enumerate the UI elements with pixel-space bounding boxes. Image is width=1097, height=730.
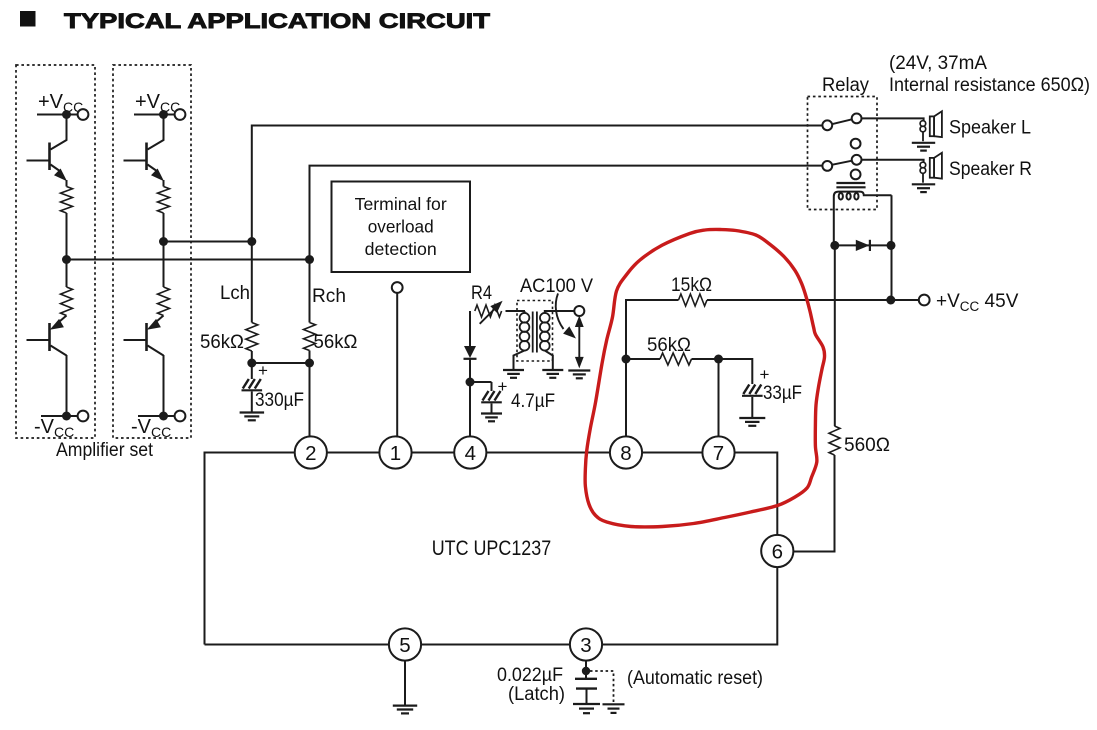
relay dashed box <box>808 97 878 210</box>
svg-text:560Ω: 560Ω <box>844 435 890 456</box>
wire -Vcc rail (amp2) <box>138 415 175 417</box>
amplifier block 2 dashed box <box>113 65 191 438</box>
transformer secondary winding <box>540 313 550 323</box>
annotation red circle <box>585 229 824 527</box>
wire amp1 output to Rch rail <box>67 259 310 261</box>
terminal AC input <box>574 306 584 316</box>
transformer T1 dashed box <box>517 301 553 362</box>
svg-text:2: 2 <box>305 442 316 465</box>
node +Vcc junction (amp2) <box>159 110 168 119</box>
wire sw2 to speaker R <box>862 160 924 163</box>
wire emitter (amp1) <box>66 180 68 187</box>
capacitor 0.022uF <box>585 671 587 679</box>
svg-text:1: 1 <box>390 442 401 465</box>
svg-text:+: + <box>760 365 770 384</box>
svg-text:(Latch): (Latch) <box>508 684 565 705</box>
relay contact sw1 NC <box>851 139 861 149</box>
ground speaker L <box>912 142 935 144</box>
terminal +Vcc (amp2) <box>175 109 186 120</box>
node diode anode <box>830 241 839 250</box>
ground below 0.022uF <box>573 703 600 705</box>
svg-text:Terminal for: Terminal for <box>355 194 447 214</box>
wire pin6 to 560 <box>793 551 834 553</box>
diode D1 <box>469 311 471 346</box>
resistor lower (amp1) <box>61 287 73 316</box>
wire pin7 rail <box>718 359 720 438</box>
wire Lch resistor to node <box>251 351 253 363</box>
node +Vcc junction (amp1) <box>62 110 71 119</box>
relay contact sw2 pole <box>822 161 832 171</box>
svg-text:Speaker L: Speaker L <box>949 118 1031 139</box>
svg-text:R4: R4 <box>471 283 492 304</box>
relay contact sw2 NC <box>851 170 861 180</box>
diode flyback <box>835 244 891 246</box>
relay contact sw1 NO <box>852 114 862 124</box>
ground AC arrow <box>568 369 590 371</box>
terminal overload detection <box>392 282 403 293</box>
svg-text:+: + <box>498 377 508 396</box>
ground below 330uF <box>240 411 265 413</box>
ground transformer primary <box>503 369 524 371</box>
relay core <box>836 182 865 184</box>
wire mid rail (amp2) <box>163 213 165 287</box>
svg-text:+: + <box>258 361 268 380</box>
svg-text:Relay: Relay <box>822 75 869 96</box>
arrow AC100V pointer <box>556 293 564 329</box>
resistor 15k <box>679 294 708 306</box>
pin 7 <box>702 436 734 468</box>
capacitor C 33uF <box>743 385 749 395</box>
resistor upper (amp2) <box>158 187 170 214</box>
resistor lower (amp2) <box>158 287 170 316</box>
pin 4 <box>454 436 486 468</box>
transistor Q upper NPN (amp2) <box>148 115 164 150</box>
pin 6 <box>761 535 793 567</box>
terminal -Vcc (amp2) <box>175 411 186 422</box>
speaker L coil <box>920 121 926 127</box>
svg-text:5: 5 <box>399 634 410 657</box>
pin 5 <box>389 628 421 660</box>
node -Vcc junction (amp2) <box>159 412 168 421</box>
wire terminal to pin1 <box>396 293 398 438</box>
svg-text:Internal resistance 650Ω): Internal resistance 650Ω) <box>889 75 1090 96</box>
svg-text:3: 3 <box>580 634 591 657</box>
wire pin3 down <box>585 661 587 671</box>
svg-text:Rch: Rch <box>312 286 346 307</box>
wire Rch to pin2 <box>309 351 311 438</box>
speaker L icon <box>930 116 934 136</box>
transistor Q lower PNP (amp1) <box>60 316 67 322</box>
node -Vcc junction (amp1) <box>62 412 71 421</box>
relay sw2 arm <box>832 161 852 165</box>
wire amp2 output to Lch rail <box>164 241 252 243</box>
svg-text:UTC UPC1237: UTC UPC1237 <box>432 537 552 560</box>
ac voltage arrow <box>578 322 580 362</box>
wire cathode to +Vcc line <box>891 245 893 300</box>
resistor 560 <box>829 426 840 455</box>
ground pin5 <box>393 704 417 706</box>
node pin3 junction <box>582 667 590 675</box>
wire pin8 rail top <box>626 300 679 359</box>
wire relay to 560 <box>834 245 836 426</box>
wire Rch to relay <box>310 166 823 323</box>
ground automatic reset <box>603 703 625 705</box>
wire pin4 rail <box>469 382 471 438</box>
wire +Vcc rail (amp2) <box>134 114 175 116</box>
wire 56k to pin7 rail <box>626 358 660 360</box>
amplifier block 1 dashed box <box>16 65 95 438</box>
transistor Q lower PNP (amp2) <box>157 316 164 322</box>
svg-text:33µF: 33µF <box>763 383 802 404</box>
svg-text:0.022µF: 0.022µF <box>497 665 563 686</box>
node Lch junction <box>247 237 256 246</box>
wire secondary to ground <box>545 351 553 370</box>
wire sw1 to speaker L <box>862 118 924 121</box>
speaker R coil <box>920 162 926 168</box>
ground transformer secondary <box>542 369 563 371</box>
svg-text:4: 4 <box>465 442 476 465</box>
wire collector to -Vcc (amp2) <box>163 355 165 416</box>
wire mid rail (amp1) <box>66 213 68 287</box>
svg-text:Lch: Lch <box>220 283 250 304</box>
ground below 33uF <box>739 417 765 419</box>
svg-text:overload: overload <box>368 217 434 237</box>
node pin7 junction <box>714 355 723 364</box>
svg-text:56kΩ: 56kΩ <box>314 332 358 353</box>
wire primary to ground <box>514 351 525 370</box>
pin 2 <box>295 436 327 468</box>
svg-text:15kΩ: 15kΩ <box>671 275 712 296</box>
wire pin8 rail <box>625 359 627 438</box>
ground below 4.7uF <box>481 412 502 414</box>
wire Lch to relay <box>252 126 823 323</box>
resistor upper (amp1) <box>61 187 73 214</box>
node Rch junction <box>305 255 314 264</box>
transistor Q upper NPN (amp1) <box>51 115 67 150</box>
relay contact sw1 pole <box>822 120 832 130</box>
node Rch bottom <box>305 359 314 368</box>
svg-text:330µF: 330µF <box>255 390 304 411</box>
node diode junction lower <box>886 296 895 305</box>
pin 1 <box>379 436 411 468</box>
svg-text:56kΩ: 56kΩ <box>200 332 244 353</box>
pin 8 <box>610 436 642 468</box>
IC UPC1237 outline <box>205 453 295 645</box>
wire -Vcc rail (amp1) <box>41 415 78 417</box>
terminal +Vcc (amp1) <box>78 109 89 120</box>
node Lch bottom <box>247 359 256 368</box>
wire +Vcc rail (amp1) <box>37 114 78 116</box>
node pin4 junction <box>466 378 475 387</box>
svg-text:(Automatic reset): (Automatic reset) <box>627 668 763 689</box>
terminal +Vcc 45V <box>919 295 930 306</box>
wire 560 to pin6 <box>793 455 834 552</box>
capacitor C 4.7uF <box>491 382 493 391</box>
svg-text:TYPICAL APPLICATION CIRCUIT: TYPICAL APPLICATION CIRCUIT <box>64 9 490 33</box>
wire collector to -Vcc (amp1) <box>66 355 68 416</box>
wire emitter (amp2) <box>163 180 165 187</box>
node 56k left junction <box>622 355 631 364</box>
resistor 56k Lch <box>246 323 258 352</box>
wire 15k to +Vcc terminal <box>707 299 919 301</box>
node diode cathode <box>887 241 896 250</box>
svg-text:(24V, 37mA: (24V, 37mA <box>889 53 987 74</box>
resistor 56k pin8 <box>660 353 692 365</box>
wire to 4.7uF <box>470 381 492 383</box>
wire Lch node to Rch rail <box>252 362 310 364</box>
svg-text:Speaker R: Speaker R <box>949 159 1032 180</box>
svg-text:8: 8 <box>620 442 631 465</box>
relay contact sw2 NO <box>852 155 862 165</box>
capacitor C 330uF <box>251 363 253 379</box>
box terminal for overload detection <box>332 182 471 273</box>
resistor 56k Rch <box>304 323 316 351</box>
wire pin5 to ground <box>404 661 406 705</box>
wire coil right lead <box>891 195 893 245</box>
svg-text:6: 6 <box>772 540 783 563</box>
resistor R4 variable <box>475 305 502 317</box>
relay sw1 arm <box>832 119 852 124</box>
svg-text:4.7µF: 4.7µF <box>511 391 555 412</box>
svg-text:7: 7 <box>713 442 724 465</box>
svg-text:AC100 V: AC100 V <box>520 276 593 297</box>
svg-text:Amplifier set: Amplifier set <box>56 440 154 461</box>
relay coil <box>834 192 892 246</box>
svg-text:detection: detection <box>365 239 437 259</box>
ground speaker R <box>912 183 935 185</box>
transformer primary winding <box>520 313 530 323</box>
transformer core <box>532 312 534 353</box>
dashed wire automatic reset <box>590 671 614 702</box>
terminal -Vcc (amp1) <box>78 411 89 422</box>
pin 3 <box>570 628 602 660</box>
section bullet <box>20 11 36 27</box>
wire R4 to transformer <box>506 310 526 312</box>
node output (amp2) <box>159 237 168 246</box>
node output (amp1) <box>62 255 71 264</box>
wire pin7 node to cap <box>719 359 753 384</box>
speaker R icon <box>930 158 934 178</box>
